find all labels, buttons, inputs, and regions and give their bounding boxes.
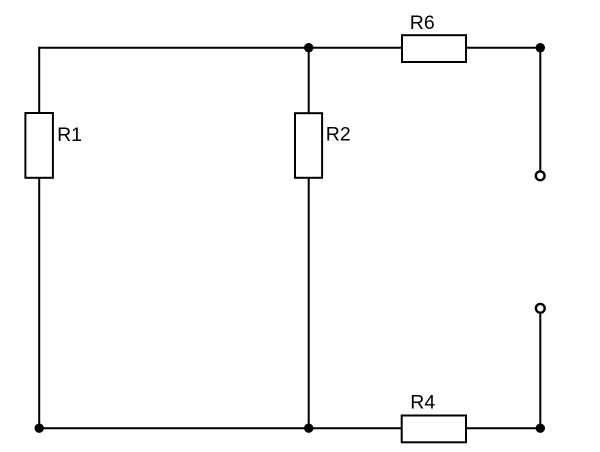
wire: bottom horizontal, R4 right pin to node F [466, 427, 541, 429]
wire: right vertical, node C down to terminal T1 [539, 48, 541, 171]
svg-text:R6: R6 [410, 12, 435, 34]
junction node D (bottom left) [35, 424, 44, 433]
resistor R6 body [402, 35, 466, 62]
wire: middle vertical, node B down to R2 top pin [308, 48, 310, 114]
resistor R4 body [402, 416, 466, 443]
wire: left vertical, node A down to R1 top pin [38, 47, 40, 114]
wire: top horizontal, R6 right pin to node C [466, 47, 541, 49]
terminal T1 (open circle, upper right) [536, 171, 545, 180]
resistor R1 body [25, 113, 53, 178]
wire: top horizontal, node B to R6 left pin [309, 47, 403, 49]
svg-text:R4: R4 [410, 392, 435, 414]
wire: right vertical, terminal T2 down to node F [539, 314, 541, 429]
resistor R2 body [295, 113, 322, 178]
wire: bottom horizontal, node D to R4 left pin [39, 427, 402, 429]
junction node F (bottom right) [536, 424, 545, 433]
wire: top horizontal, node A to node B [38, 47, 308, 49]
junction node B (top middle) [304, 43, 313, 52]
wire: middle vertical, R2 bottom pin down to node E [308, 178, 310, 429]
svg-text:R2: R2 [326, 123, 351, 145]
wire: left vertical, R1 bottom pin down to node D [38, 178, 40, 429]
terminal T2 (open circle, lower right) [536, 304, 545, 313]
junction node E (bottom middle) [304, 424, 313, 433]
junction node C (top right) [536, 43, 545, 52]
svg-text:R1: R1 [57, 124, 82, 146]
